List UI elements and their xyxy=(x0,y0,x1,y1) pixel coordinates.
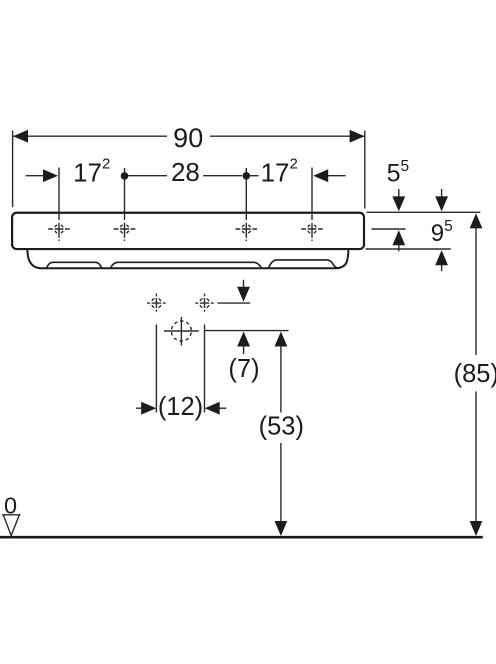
svg-text:(7): (7) xyxy=(228,355,259,383)
svg-text:28: 28 xyxy=(171,157,200,187)
svg-text:95: 95 xyxy=(431,218,453,247)
svg-text:(53): (53) xyxy=(259,412,304,440)
svg-text:0: 0 xyxy=(4,492,17,518)
svg-text:172: 172 xyxy=(73,156,110,188)
svg-text:(12): (12) xyxy=(158,393,203,421)
svg-text:(85): (85) xyxy=(454,360,496,388)
svg-text:55: 55 xyxy=(387,158,410,188)
svg-text:172: 172 xyxy=(261,156,298,188)
svg-text:90: 90 xyxy=(173,123,203,153)
